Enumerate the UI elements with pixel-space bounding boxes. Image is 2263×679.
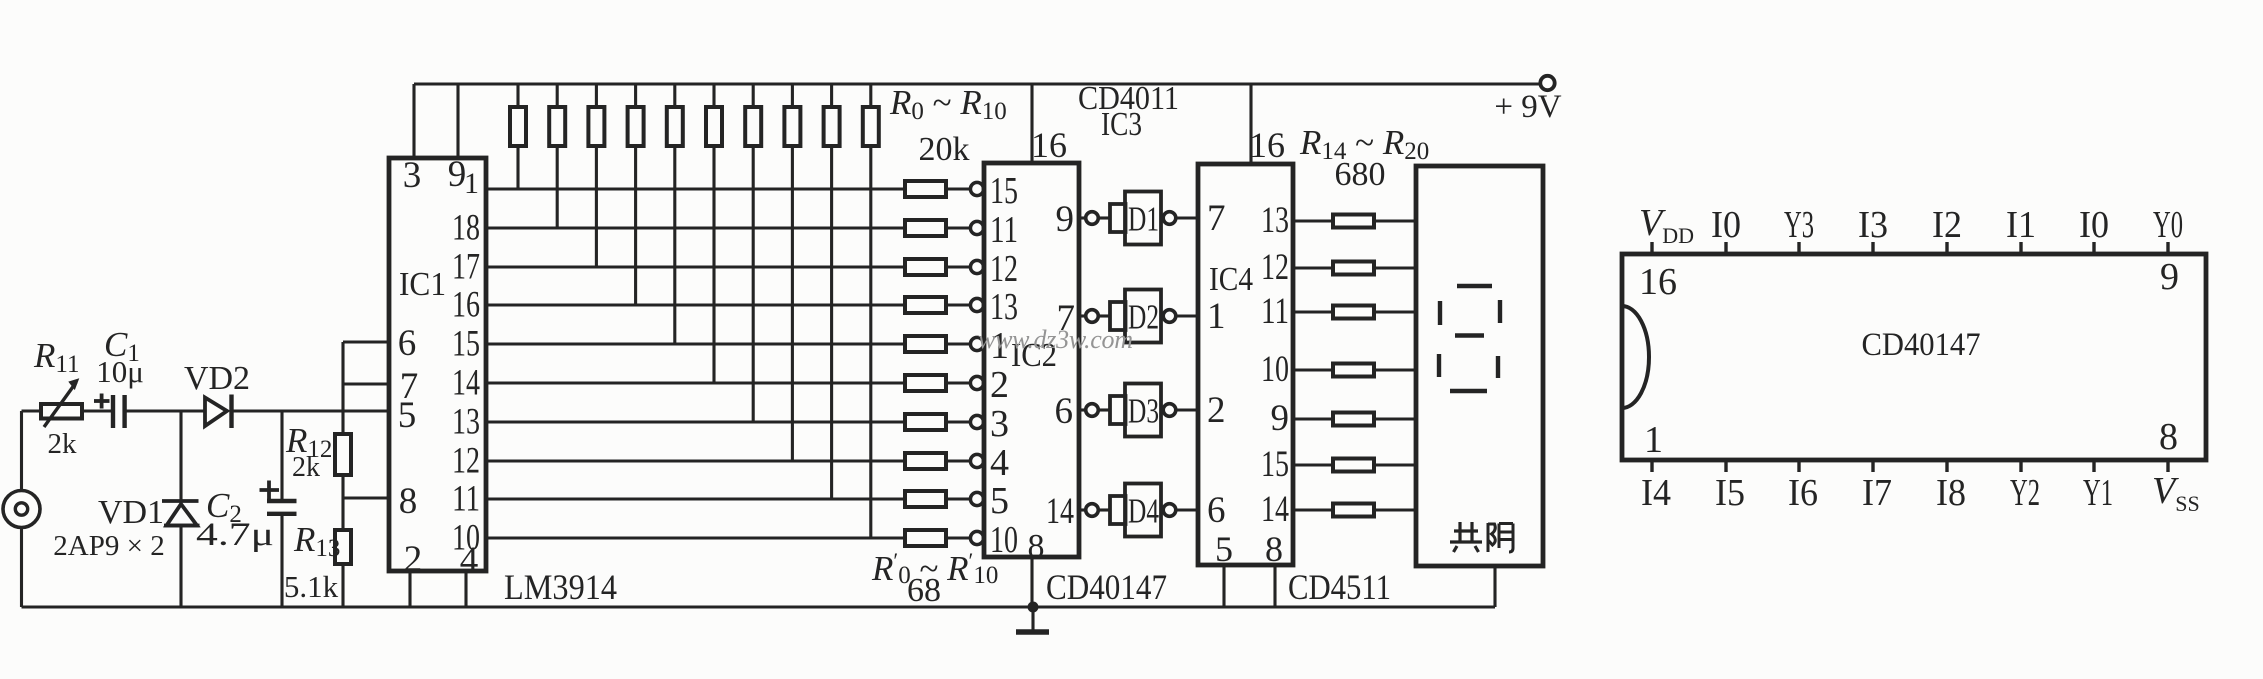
svg-text:CD40147: CD40147: [1046, 567, 1167, 607]
svg-text:12: 12: [990, 248, 1018, 290]
label VD2: [184, 360, 250, 397]
svg-text:5.1k: 5.1k: [284, 569, 339, 604]
driver IC1 LM3914 box: [389, 158, 486, 571]
IC1 pin number labels 3,9,1,6,7,5,8,2,4: [398, 154, 479, 581]
gate D1 (CD4011): [1079, 192, 1198, 245]
corner pin numbers 16,9,1,8: [1639, 256, 2179, 461]
svg-text:I6: I6: [1788, 472, 1818, 514]
value 5.1k (R13): [284, 569, 339, 604]
label CD4511 (IC4): [1288, 567, 1391, 607]
svg-text:I5: I5: [1715, 472, 1745, 514]
wire: IC1 pin 2 to ground bus: [408, 571, 411, 607]
IC2 left pin labels 15,11,12,13,1,2,3,4,5,10: [990, 170, 1018, 561]
svg-text:1: 1: [1644, 419, 1663, 461]
svg-text:8: 8: [1028, 528, 1045, 565]
IC4 right pin labels 13,12,11,10,9,15,14: [1261, 200, 1289, 530]
svg-text:I2: I2: [1932, 204, 1962, 246]
label R12: [285, 421, 332, 463]
svg-text:680: 680: [1335, 156, 1386, 193]
svg-text:11: 11: [452, 479, 480, 520]
svg-text:6: 6: [1055, 391, 1074, 432]
decoder IC4 CD4511 box: [1198, 164, 1293, 565]
svg-text:6: 6: [1207, 490, 1226, 531]
7-segment LED display (common cathode) box: [1416, 166, 1543, 566]
value 2k (R11): [48, 428, 78, 460]
wire: R11 to C1: [82, 409, 113, 412]
svg-text:5: 5: [1215, 529, 1233, 569]
svg-text:LM3914: LM3914: [504, 567, 617, 607]
svg-text:D1: D1: [1128, 200, 1159, 239]
svg-text:2: 2: [1207, 390, 1226, 431]
top pin labels VDD I0 Y3 I3 I2 I1 I0 Y0: [1639, 202, 2183, 248]
svg-text:16: 16: [1639, 261, 1677, 303]
svg-text:IC3: IC3: [1101, 106, 1142, 143]
IC2 right pin labels 9,7,6,14: [1046, 199, 1075, 532]
7-segment digit segments: [1439, 286, 1500, 391]
IC1 pin number labels 18,17,16,15,14,13,12,11,10: [452, 208, 480, 559]
svg-text:13: 13: [990, 286, 1018, 328]
svg-text:D3: D3: [1128, 392, 1159, 431]
svg-text:14: 14: [452, 363, 480, 404]
bottom pin ticks (pins 1..8): [1652, 460, 2168, 472]
IC4 left pin labels 7,1,2,6: [1207, 198, 1226, 531]
svg-text:8: 8: [399, 481, 418, 522]
wire: +9V supply bus: [414, 82, 1542, 85]
wire: R13 to ground bus: [341, 564, 344, 607]
svg-text:Y1: Y1: [2083, 472, 2113, 514]
wire: jack to ground bus: [20, 528, 23, 608]
label CD4011: [1078, 80, 1179, 117]
svg-text:10: 10: [990, 519, 1018, 561]
label 16 (IC2 pin): [1031, 125, 1067, 165]
value 68: [907, 572, 941, 609]
svg-text:16: 16: [452, 285, 480, 326]
svg-text:CD4511: CD4511: [1288, 567, 1391, 607]
svg-text:15: 15: [990, 170, 1018, 212]
input jack J: [3, 491, 40, 528]
svg-text:I0: I0: [1711, 204, 1741, 246]
capacitor C2 (electrolytic, vertical branch): [267, 411, 297, 607]
wire: IC1 pin 3 to +9V bus: [412, 84, 415, 158]
svg-text:11: 11: [1261, 291, 1289, 332]
resistor array R0~R10 20k pull-ups: [510, 84, 879, 538]
svg-text:CD40147: CD40147: [1862, 327, 1981, 363]
svg-text:2k: 2k: [48, 428, 78, 460]
resistor array R14~R20 680 ohm: [1293, 215, 1416, 517]
wire: VD2 cathode to IC1 pin5: [232, 409, 390, 412]
svg-text:I4: I4: [1641, 472, 1671, 514]
svg-text:VD1: VD1: [98, 494, 164, 531]
encoder IC2 CD40147 box: [984, 163, 1079, 557]
svg-text:4.7μ: 4.7μ: [196, 517, 274, 553]
svg-text:I7: I7: [1862, 472, 1892, 514]
IC4 pin 5 stub to ground bus: [1222, 565, 1225, 607]
svg-text:16: 16: [1031, 125, 1067, 165]
gate D4 (CD4011): [1079, 484, 1198, 537]
svg-text:17: 17: [452, 247, 480, 288]
label R0~R10: [889, 83, 1007, 125]
label 8 (IC2 pin): [1028, 528, 1045, 565]
svg-text:5: 5: [398, 395, 417, 436]
label R0p~R10p: [871, 548, 998, 589]
svg-text:+ 9V: + 9V: [1494, 89, 1561, 125]
svg-text:1: 1: [464, 167, 479, 200]
wire: ground bus: [22, 605, 1496, 608]
svg-text:I8: I8: [1936, 472, 1966, 514]
value 4.7u (C2): [196, 517, 274, 553]
potentiometer R11: [41, 378, 82, 427]
svg-text:15: 15: [452, 324, 480, 365]
value 10u (C1): [96, 354, 144, 389]
value 680: [1335, 156, 1386, 193]
IC4 pin 16 stub to +9V bus: [1249, 84, 1252, 164]
value 2AP9 x2 (VD1, VD2): [53, 530, 164, 562]
svg-text:2: 2: [404, 539, 423, 580]
IC2 pin 16 stub to +9V bus: [1030, 84, 1033, 163]
svg-text:18: 18: [452, 208, 480, 249]
plus mark C2: [260, 481, 280, 500]
top pin ticks (pins 16..9): [1652, 242, 2168, 254]
label GongYin (common cathode) drawn glyphs: [1450, 522, 1513, 552]
svg-text:9: 9: [1271, 398, 1290, 439]
svg-text:Y2: Y2: [2010, 472, 2040, 514]
label LM3914: [504, 567, 617, 607]
value 20k: [919, 131, 970, 168]
terminal +9V: [1540, 76, 1554, 90]
wire: jack to main line: [22, 411, 42, 491]
svg-text:2AP9 × 2: 2AP9 × 2: [53, 530, 164, 562]
diode VD1 (vertical branch): [162, 411, 200, 607]
svg-text:Y0: Y0: [2153, 204, 2183, 246]
label CD40147 (package): [1862, 327, 1981, 363]
svg-text:12: 12: [1261, 247, 1289, 288]
value 2k (R12): [292, 452, 320, 483]
svg-text:4: 4: [990, 442, 1009, 484]
wire: pins 6-7 tie to R12 chain: [343, 342, 389, 434]
svg-text:IC1: IC1: [399, 266, 446, 303]
bottom pin labels I4 I5 I6 I7 I8 Y2 Y1 VSS: [1641, 470, 2200, 516]
label R13: [293, 520, 340, 562]
svg-text:VD2: VD2: [184, 360, 250, 397]
svg-text:I0: I0: [2079, 204, 2109, 246]
svg-text:13: 13: [1261, 200, 1289, 241]
label C2: [206, 486, 242, 528]
svg-text:14: 14: [1046, 491, 1074, 532]
label IC4: [1209, 261, 1253, 298]
diode VD2: [205, 395, 232, 429]
IC package CD40147 DIP outline: [1622, 254, 2206, 460]
svg-text:14: 14: [1261, 489, 1289, 530]
IC4 pin 8 stub to ground bus: [1273, 565, 1276, 607]
label IC1: [399, 266, 446, 303]
svg-text:10: 10: [1261, 349, 1289, 390]
wires: 10 output rows IC1 to series resistors: [486, 189, 904, 538]
label C1: [104, 325, 140, 367]
svg-text:3: 3: [403, 155, 422, 196]
svg-text:8: 8: [2159, 416, 2178, 458]
svg-text:2k: 2k: [292, 452, 320, 483]
svg-text:Y3: Y3: [1784, 204, 1814, 246]
svg-text:13: 13: [452, 402, 480, 443]
svg-text:12: 12: [452, 441, 480, 482]
label +9V: [1494, 89, 1561, 125]
gate D3 (CD4011): [1079, 384, 1198, 437]
svg-text:68: 68: [907, 572, 941, 609]
svg-text:6: 6: [398, 323, 417, 364]
svg-text:1: 1: [1207, 296, 1226, 337]
svg-text:20k: 20k: [919, 131, 970, 168]
wire: R12 to R13 with tap to pin 8: [343, 475, 389, 530]
svg-text:11: 11: [990, 209, 1018, 251]
wire: C1 to VD2 anode (junction with VD1 branch): [125, 409, 205, 412]
svg-text:IC4: IC4: [1209, 261, 1253, 298]
svg-text:15: 15: [1261, 444, 1289, 485]
IC2 pin 8 stub to ground: [1030, 557, 1033, 607]
capacitor C1 (electrolytic): [113, 395, 125, 428]
label VD1: [98, 494, 164, 531]
svg-text:9: 9: [1056, 199, 1075, 240]
svg-text:10: 10: [452, 518, 480, 559]
resistor array R0p~R10p 68 ohm series: [905, 181, 984, 546]
label R14~R20: [1299, 123, 1429, 165]
label 16 (IC4 pin): [1249, 125, 1285, 165]
svg-text:D4: D4: [1128, 492, 1159, 531]
svg-text:9: 9: [2160, 256, 2179, 298]
svg-text:8: 8: [1265, 529, 1283, 569]
wire: IC1 pin 9 to +9V bus: [456, 84, 459, 158]
wire: display common cathode to ground bus: [1493, 566, 1496, 607]
svg-text:7: 7: [1207, 198, 1226, 239]
gate D2 (CD4011): [1079, 290, 1198, 343]
plus mark C1: [94, 394, 110, 409]
label IC3: [1101, 106, 1142, 143]
label IC2: [1011, 337, 1057, 374]
svg-text:16: 16: [1249, 125, 1285, 165]
svg-text:I1: I1: [2006, 204, 2036, 246]
wire: IC1 pin 4 to ground bus: [464, 571, 467, 607]
resistor R13: [335, 530, 351, 564]
labels 5 and 8 (IC4 bottom pins): [1215, 529, 1283, 569]
label R11: [33, 336, 79, 378]
svg-text:www.dz3w.com: www.dz3w.com: [978, 325, 1133, 354]
svg-text:10μ: 10μ: [96, 354, 144, 389]
svg-text:3: 3: [990, 403, 1009, 445]
label CD40147 (IC2): [1046, 567, 1167, 607]
svg-text:5: 5: [990, 480, 1009, 522]
ground symbol: [1016, 602, 1049, 633]
svg-text:I3: I3: [1858, 204, 1888, 246]
svg-text:2: 2: [990, 364, 1009, 406]
resistor R12: [335, 434, 351, 475]
